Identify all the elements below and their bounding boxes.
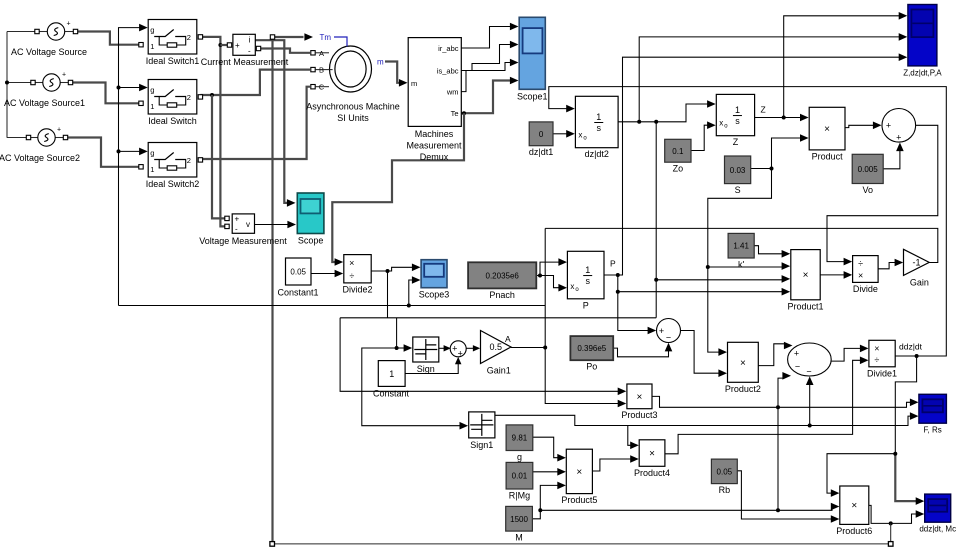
svg-text:0.1: 0.1 xyxy=(672,147,684,156)
wire M to Product6 input2 xyxy=(540,507,832,511)
arrow into Scope1 input2 xyxy=(510,41,519,49)
node switch output branch xyxy=(210,93,214,97)
svg-text:i: i xyxy=(249,36,251,45)
node Divide1 out junction xyxy=(915,354,919,358)
wire S to Product1 input2 xyxy=(708,266,783,268)
Scope3 block xyxy=(419,260,450,300)
scope Z dzdt P A block xyxy=(903,5,942,78)
svg-text:x: x xyxy=(578,131,582,140)
arrow into Scope1 input3 xyxy=(510,59,519,67)
svg-text:s: s xyxy=(735,116,740,126)
wire Product5 to Product4 xyxy=(592,459,631,471)
node S to Product1 junction xyxy=(706,265,710,269)
wire M to Product5 input3 xyxy=(532,485,558,518)
port switch terminal1 xyxy=(139,101,143,105)
svg-text:g: g xyxy=(517,452,522,462)
port AC source3 left xyxy=(26,135,30,139)
wire Sign to Sum0 xyxy=(439,347,445,349)
arrow into Ideal Switch2 gate xyxy=(139,148,148,156)
svg-text:1.41: 1.41 xyxy=(733,242,749,251)
Machines Measurement Demux block xyxy=(406,38,462,162)
svg-text:Asynchronous Machine: Asynchronous Machine xyxy=(306,102,400,112)
wire dzdt1 to dzdt2 x0 xyxy=(553,133,567,135)
wire to Scope3 input1 xyxy=(388,267,414,271)
Ideal Switch1 block xyxy=(146,20,200,67)
svg-text:-: - xyxy=(248,47,251,56)
arrow into Divide1 divide input xyxy=(860,357,869,365)
wire Zo to Z x0 xyxy=(691,125,708,150)
wire dz to Product1 input3 xyxy=(656,279,782,281)
svg-text:×: × xyxy=(649,449,655,460)
wire Pnach to P input xyxy=(536,262,559,275)
svg-text:Ideal Switch: Ideal Switch xyxy=(148,116,197,126)
Divide1 block xyxy=(867,340,897,378)
svg-text:1: 1 xyxy=(389,369,394,379)
arrow into Product5 input3 xyxy=(557,482,566,490)
Divide block xyxy=(853,256,879,294)
svg-text:×: × xyxy=(803,270,809,281)
scope F Rs block xyxy=(919,394,947,434)
svg-text:+: + xyxy=(235,215,240,224)
arrow into Divide times input xyxy=(844,271,853,279)
svg-text:AC Voltage Source1: AC Voltage Source1 xyxy=(4,98,85,108)
svg-text:Product4: Product4 xyxy=(634,468,670,478)
arrow into Product6 input1 xyxy=(831,489,840,497)
arrow into Divide divide input xyxy=(844,258,853,266)
wire source2 right stub xyxy=(60,82,71,84)
svg-text:ddz|dt: ddz|dt xyxy=(899,342,923,352)
wire RMg to Product5 input2 xyxy=(533,471,559,473)
wire switch1 output to CM and VM minus xyxy=(200,37,225,227)
arrow into ZdzdtPA input2 xyxy=(899,33,908,41)
wire Product3 to FRs input1 xyxy=(652,396,911,407)
integrator Z block xyxy=(716,94,754,147)
node M branch xyxy=(538,508,542,512)
wire Product1 to Divide xyxy=(820,274,844,276)
constant Zo block xyxy=(665,139,691,173)
wire branch to Product4 input1 xyxy=(628,426,632,446)
port AC source3 right xyxy=(63,135,67,139)
wire source3 right stub xyxy=(55,137,66,139)
svg-text:Te: Te xyxy=(451,109,459,118)
wire down to Product3 input1 xyxy=(340,318,618,392)
wire to scope ZdzdtPA input2 xyxy=(639,37,899,122)
svg-text:+: + xyxy=(458,348,463,358)
arrow into Divide2 times input xyxy=(335,258,344,266)
svg-text:1: 1 xyxy=(150,165,154,174)
svg-text:Machines: Machines xyxy=(415,129,454,139)
wire riser to Sum3 bottom xyxy=(809,380,811,426)
svg-text:dz|dt1: dz|dt1 xyxy=(529,147,553,157)
wire P output to scope xyxy=(604,57,900,275)
node bottom line left end square xyxy=(270,542,275,547)
Ideal Switch block xyxy=(148,80,197,127)
Divide2 block xyxy=(342,255,372,295)
node Product6 out branch xyxy=(889,521,893,525)
node Te branch xyxy=(462,111,466,115)
wire ddzdt to Product6 input1 xyxy=(827,454,895,493)
svg-text:Zo: Zo xyxy=(673,164,684,174)
wire ir_abc to Scope1 xyxy=(461,27,510,49)
port VM plus input xyxy=(225,216,229,220)
arrow into Product4 input2 xyxy=(630,455,639,463)
Product4 block xyxy=(634,440,670,478)
Product1 block xyxy=(787,250,823,312)
wire gate signal horizontal xyxy=(119,305,546,307)
arrow into Ideal Switch1 gate xyxy=(139,24,148,32)
wire Product6 to Mc scope xyxy=(869,505,917,523)
arrow into Scope1 input4 xyxy=(510,77,519,85)
svg-text:is_abc: is_abc xyxy=(437,67,459,76)
svg-text:Divide: Divide xyxy=(853,284,878,294)
wire torque feedback vertical xyxy=(273,37,304,544)
wire ddzdt down to Mc scope xyxy=(895,454,917,501)
arrow into Sum3 minus input xyxy=(782,372,791,380)
svg-text:-1: -1 xyxy=(913,257,921,267)
svg-text:1500: 1500 xyxy=(510,515,528,524)
node switch1 output branch xyxy=(218,43,222,47)
Product block xyxy=(809,107,845,161)
node Z output junction xyxy=(782,116,786,120)
svg-text:×: × xyxy=(576,467,582,478)
arrow into Scope1 input1 xyxy=(510,23,519,31)
svg-text:0.396e5: 0.396e5 xyxy=(577,344,606,353)
wire gate branch to Ideal Switch xyxy=(119,87,140,89)
wire Sum1 to Product2 xyxy=(681,331,720,374)
node gate branch 2 xyxy=(117,149,121,153)
svg-text:0.2035e6: 0.2035e6 xyxy=(486,271,520,280)
arrow into FRs input2 xyxy=(910,412,919,420)
wire Rb to Product6 input3 xyxy=(737,471,832,519)
Product3 block xyxy=(621,384,657,420)
node Scope3 input2 branch xyxy=(407,304,411,308)
arrow into Product3 input2 xyxy=(618,400,627,408)
arrow into Product2 input2 xyxy=(718,369,727,377)
svg-text:×: × xyxy=(851,501,857,512)
port machine B xyxy=(311,67,315,71)
node P output junction1 xyxy=(616,273,620,277)
wire down to Sign junction xyxy=(396,318,398,348)
arrow into P input1 xyxy=(558,258,567,266)
svg-text:0.05: 0.05 xyxy=(717,467,733,476)
svg-text:Product3: Product3 xyxy=(621,410,657,420)
wire source3 left stub xyxy=(29,137,39,139)
svg-text:Product: Product xyxy=(812,151,844,161)
port AC source1 right xyxy=(73,29,77,33)
arrow into Scope3 input2 xyxy=(412,276,421,284)
svg-text:k': k' xyxy=(738,260,745,270)
port machine A xyxy=(311,51,315,55)
svg-text:Gain: Gain xyxy=(910,277,929,287)
arrow into Product5 input2 xyxy=(557,468,566,476)
node Gain1 output junction xyxy=(543,346,547,350)
wire branch to voltage measurement plus xyxy=(212,95,225,218)
constant Po block xyxy=(570,336,613,372)
wire Sum0 to Gain1 xyxy=(467,347,474,349)
svg-text:Z: Z xyxy=(761,105,766,115)
svg-text:×: × xyxy=(858,271,863,281)
Constant block xyxy=(373,361,410,399)
svg-text:Z,dz|dt,P,A: Z,dz|dt,P,A xyxy=(903,68,942,77)
port AC source2 right xyxy=(68,80,72,84)
wire source1 right stub xyxy=(65,31,76,33)
svg-text:AC Voltage Source: AC Voltage Source xyxy=(11,47,87,57)
arrow into Gain input xyxy=(895,259,904,267)
svg-text:Voltage Measurement: Voltage Measurement xyxy=(199,236,287,246)
port switch2 terminal1 xyxy=(139,165,143,169)
wire Constant to Sum0 xyxy=(405,360,458,373)
svg-text:Product6: Product6 xyxy=(836,526,872,536)
wire main vertical x545 xyxy=(545,228,618,403)
svg-text:F, Rs: F, Rs xyxy=(924,426,942,435)
AC Voltage Source xyxy=(11,21,87,58)
svg-text:×: × xyxy=(349,258,354,268)
Sign block xyxy=(413,337,439,374)
svg-text:-: - xyxy=(235,225,238,234)
Product5 block xyxy=(561,449,597,505)
arrow into P x0 xyxy=(558,284,567,292)
wire Divide2 output xyxy=(371,270,387,272)
node bottom line end square xyxy=(888,542,893,547)
svg-text:Gain1: Gain1 xyxy=(487,366,511,376)
arrow into Scope input1 xyxy=(287,199,296,207)
wire source1 left stub xyxy=(37,31,48,33)
wire VM output to Scope input2 xyxy=(255,224,289,226)
wire switch2 output to machine C xyxy=(200,87,310,159)
arrow into FRs input1 xyxy=(910,399,919,407)
port VM minus input xyxy=(225,224,229,228)
arrow into Sum2 bottom input xyxy=(896,143,904,152)
Sum0 circle xyxy=(450,341,466,359)
wire Product4 to Divide1 xyxy=(665,360,861,454)
svg-text:+: + xyxy=(62,72,66,79)
arrow into Product6 input3 xyxy=(831,515,840,523)
arrow into Z x0 xyxy=(707,121,716,129)
svg-text:A: A xyxy=(505,334,511,344)
arrow into Product2 input1 xyxy=(718,348,727,356)
arrow into Divide1 times input xyxy=(860,345,869,353)
wire S output up to Product xyxy=(751,138,801,169)
node dz branch to Product1 xyxy=(654,278,658,282)
arrow into Z input xyxy=(707,100,716,108)
port machine C xyxy=(311,85,315,89)
svg-text:Measurement: Measurement xyxy=(406,141,462,151)
node ddzdt branch xyxy=(893,452,897,456)
svg-text:1: 1 xyxy=(596,112,601,122)
svg-text:+: + xyxy=(886,121,891,131)
node Sum3 bottom branch xyxy=(808,424,812,428)
svg-text:×: × xyxy=(637,392,643,403)
wire AC source3 to switch2 terminal1 xyxy=(68,138,140,167)
arrow into ZdzdtPA input3 xyxy=(899,53,908,61)
AC Voltage Source2 xyxy=(0,127,80,164)
arrow into Sign input xyxy=(404,344,413,352)
wire Sum2 to Divide xyxy=(827,125,938,261)
svg-text:0.05: 0.05 xyxy=(290,268,306,277)
arrow into demux m input xyxy=(399,79,408,87)
arrow into Product input2 xyxy=(800,134,809,142)
node S output junction xyxy=(770,167,774,171)
wire Sign1 output line xyxy=(495,415,911,425)
wire Divide1 output down xyxy=(895,356,916,454)
svg-text:Divide1: Divide1 xyxy=(867,368,897,378)
svg-text:Po: Po xyxy=(586,362,597,372)
svg-text:AC Voltage Source2: AC Voltage Source2 xyxy=(0,153,80,163)
wire Te to Scope1 xyxy=(461,81,510,114)
node mass riser crossing y407 xyxy=(776,405,780,409)
svg-text:Demux: Demux xyxy=(420,152,449,162)
wire dz branch down xyxy=(655,122,657,318)
svg-text:0.005: 0.005 xyxy=(858,165,879,174)
wire Product to Sum2 xyxy=(845,125,874,127)
svg-text:−: − xyxy=(666,333,671,343)
constant Rb block xyxy=(711,459,737,495)
Ideal Switch2 block xyxy=(146,143,200,190)
port CM minus output xyxy=(256,46,260,50)
arrow into Product1 input1 xyxy=(782,250,791,258)
wire machine m to demux xyxy=(385,62,400,83)
svg-text:m: m xyxy=(411,79,417,88)
wire P to Product1 input4 xyxy=(618,291,783,293)
svg-text:s: s xyxy=(585,276,590,286)
arrow into ZdzdtPA input1 xyxy=(899,12,908,20)
svg-text:Scope: Scope xyxy=(298,236,324,246)
wire CM i output down to Scope xyxy=(255,40,287,203)
arrow into Product4 input1 xyxy=(630,442,639,450)
Sum1 circle xyxy=(657,319,681,343)
svg-text:1: 1 xyxy=(150,102,154,111)
wire g to Product5 input1 xyxy=(533,437,559,458)
svg-text:0: 0 xyxy=(539,130,544,139)
wire AC source1 to switch1 terminal1 xyxy=(78,32,140,45)
wire Divide2 branch down xyxy=(387,271,389,318)
Scope block (teal) xyxy=(297,193,324,246)
svg-text:−: − xyxy=(795,362,800,372)
wire branch to current measurement plus xyxy=(220,44,227,46)
arrow into Tm input xyxy=(304,33,313,41)
wire to Scope3 input2 xyxy=(409,280,413,306)
wire machine C stub xyxy=(315,86,329,88)
arrow into Sum1 minus input xyxy=(665,343,673,352)
svg-text:1: 1 xyxy=(150,42,154,51)
Gain block xyxy=(904,249,930,287)
arrow into Product1 input4 xyxy=(782,288,791,296)
wire Sum3 to Divide1 xyxy=(831,348,861,361)
svg-text:v: v xyxy=(246,220,250,229)
arrow into Sum0 bottom input xyxy=(455,357,461,364)
integrator P block xyxy=(567,251,604,310)
wire mass riser to Sum3 xyxy=(778,378,785,510)
svg-text:2: 2 xyxy=(187,33,191,42)
arrow into Gain1 input xyxy=(473,345,480,351)
svg-text:−: − xyxy=(806,367,811,377)
arrow into Mc scope input2 xyxy=(916,510,925,518)
svg-text:s: s xyxy=(597,123,602,133)
wire is_abc to Scope1 xyxy=(461,45,510,71)
svg-text:S: S xyxy=(735,185,741,195)
port CM plus input xyxy=(227,43,231,47)
AC Voltage Source1 xyxy=(4,72,85,109)
arrow into Sum3 bottom input xyxy=(806,376,814,385)
port Ideal Switch2 block output xyxy=(198,158,202,162)
svg-text:0.03: 0.03 xyxy=(730,166,746,175)
wire dzdt2 output to Z xyxy=(618,104,708,122)
port AC source1 left xyxy=(35,29,39,33)
svg-text:x: x xyxy=(570,282,574,291)
svg-text:Tm: Tm xyxy=(320,33,332,42)
wire Gain1 output xyxy=(511,347,545,349)
svg-text:Sign: Sign xyxy=(417,364,435,374)
Product6 block xyxy=(836,486,872,536)
arrow into Divide2 divide input xyxy=(335,270,344,278)
svg-text:Scope3: Scope3 xyxy=(419,290,450,300)
node dzdt2 out junction2 xyxy=(654,120,658,124)
wire Constant1 to Divide2 xyxy=(311,273,336,275)
svg-text:2: 2 xyxy=(187,156,191,165)
Voltage Measurement block xyxy=(199,214,287,246)
wire Po to Sum1 minus xyxy=(613,347,668,357)
constant dz|dt1 block xyxy=(529,122,553,157)
svg-text:Ideal Switch1: Ideal Switch1 xyxy=(146,56,200,66)
svg-text:×: × xyxy=(874,343,879,353)
svg-text:Constant1: Constant1 xyxy=(277,288,318,298)
node P output junction2 xyxy=(616,290,620,294)
svg-text:+: + xyxy=(659,326,664,336)
wire switch output to machine B xyxy=(200,70,310,95)
wire S down-left net xyxy=(708,169,772,353)
wire into Sign xyxy=(397,347,405,349)
svg-text:÷: ÷ xyxy=(858,259,863,269)
arrow into Product input1 xyxy=(800,114,809,122)
svg-text:P: P xyxy=(610,259,616,269)
arrow into Product1 input3 xyxy=(782,275,791,283)
svg-text:1: 1 xyxy=(585,265,590,275)
svg-text:+: + xyxy=(896,133,901,143)
svg-text:+: + xyxy=(452,343,457,353)
svg-text:Z: Z xyxy=(733,137,739,147)
svg-text:Scope1: Scope1 xyxy=(517,91,548,101)
svg-text:Divide2: Divide2 xyxy=(342,284,372,294)
constant Vo block xyxy=(852,154,883,195)
svg-text:Vo: Vo xyxy=(862,185,873,195)
svg-text:×: × xyxy=(740,358,746,369)
arrow into Product5 input1 xyxy=(557,454,566,462)
svg-text:+: + xyxy=(235,41,240,50)
svg-text:+: + xyxy=(57,127,61,134)
svg-text:9.81: 9.81 xyxy=(512,434,528,443)
svg-text:Product1: Product1 xyxy=(787,301,823,311)
wire Tm blue elbow xyxy=(334,37,347,47)
wire Pnach to P x0 xyxy=(540,276,560,288)
svg-text:Product2: Product2 xyxy=(725,384,761,394)
node Divide2 output junction xyxy=(386,269,390,273)
wire Product2 to Sum3 xyxy=(758,344,785,366)
node gate branch 1 xyxy=(117,86,121,90)
arrow into Sum1 plus input xyxy=(648,327,657,335)
wire machine A stub xyxy=(315,52,329,54)
node mass riser at y510 xyxy=(776,508,780,512)
port Ideal Switch block output xyxy=(198,95,202,99)
wire to Sign1 xyxy=(362,348,461,426)
svg-text:Constant: Constant xyxy=(373,389,410,399)
Current Measurement block xyxy=(201,34,289,67)
svg-text:×: × xyxy=(824,124,830,135)
svg-text:Product5: Product5 xyxy=(561,495,597,505)
svg-text:dz|dt2: dz|dt2 xyxy=(585,149,609,159)
wire gate bus vertical xyxy=(119,28,140,306)
constant k block xyxy=(728,233,754,269)
Sum2 circle xyxy=(882,109,916,143)
